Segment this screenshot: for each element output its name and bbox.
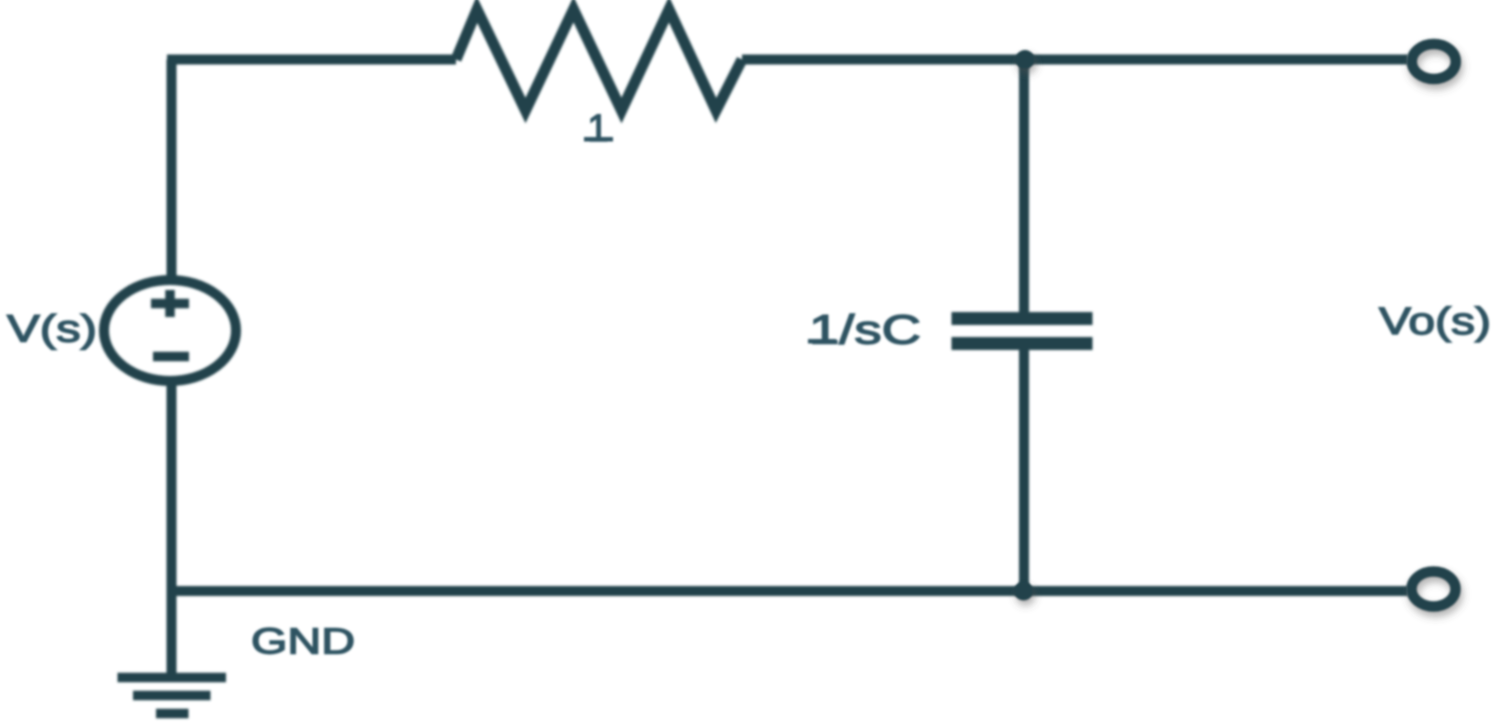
wire: capacitor bottom lead — [1019, 348, 1029, 591]
junction dot: bottom rail at capacitor — [1014, 582, 1033, 601]
wire: capacitor top lead — [1019, 60, 1029, 315]
svg-text:1/sC: 1/sC — [809, 307, 921, 353]
serif foot of the 1 in 1/sC — [808, 339, 836, 344]
voltage source V1 plus sign — [151, 290, 189, 317]
serif foot of resistor value 1 — [584, 137, 613, 142]
svg-text:V(s): V(s) — [7, 309, 97, 351]
voltage source V1 body — [104, 280, 236, 381]
resistor R1 zigzag — [456, 10, 742, 111]
capacitor C1 bottom plate — [952, 337, 1093, 350]
svg-text:GND: GND — [251, 621, 355, 662]
wire: bottom rail (GND net) — [172, 586, 1409, 596]
ground symbol bar 3 — [156, 709, 189, 719]
capacitor C1 top plate — [952, 312, 1093, 325]
junction dot: node Vo top (capacitor / output) — [1016, 50, 1035, 69]
wire: source (-) down to ground — [167, 377, 177, 682]
svg-text:Vo(s): Vo(s) — [1379, 301, 1491, 343]
output terminal: Vo(s) top — [1412, 44, 1456, 79]
output terminal: Vo(s) bottom (reference) — [1412, 572, 1456, 607]
ground symbol bar 2 — [133, 691, 211, 701]
wire: top rail right segment to output terminal — [742, 55, 1408, 65]
svg-text:1: 1 — [587, 108, 608, 150]
voltage source V1 minus sign — [153, 352, 189, 362]
wire: top rail left segment — [167, 55, 456, 65]
wire: left vertical from source (+) up to top rail — [167, 60, 177, 286]
ground symbol bar 1 — [118, 673, 227, 683]
